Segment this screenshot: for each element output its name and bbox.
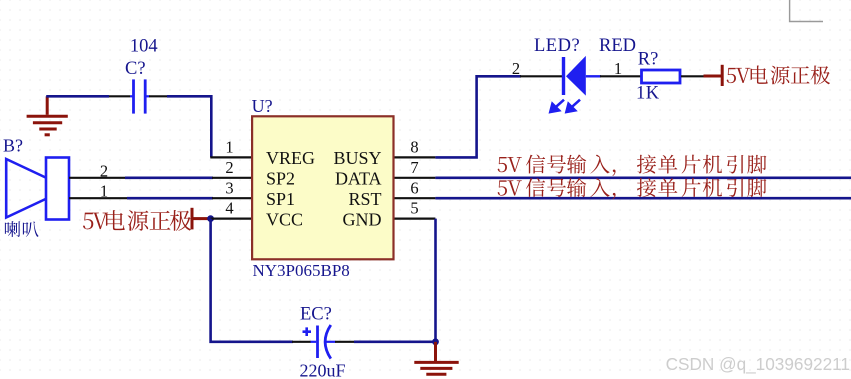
pin 1 lead (210, 156, 252, 158)
pin 6 lead (394, 197, 436, 199)
svg-text:U?: U? (252, 96, 273, 116)
svg-text:1: 1 (100, 181, 108, 200)
pin 8 lead (394, 156, 436, 158)
pin 3 lead (212, 197, 252, 199)
junction node VCC (207, 215, 214, 222)
svg-text:2: 2 (100, 162, 108, 181)
svg-text:B?: B? (3, 135, 23, 155)
electrolytic capacitor EC? plates (303, 325, 336, 359)
wire pin8 up to LED (435, 76, 521, 157)
wire EC1 to ground node (354, 340, 436, 343)
resistor R? body (642, 70, 681, 83)
sheet border corner (grey) (790, 0, 823, 22)
net label 5V电源正极 (right) (727, 66, 830, 85)
C1 right pin lead (black) (149, 95, 167, 97)
R1 right lead (black) (681, 75, 708, 77)
svg-text:1K: 1K (636, 84, 660, 104)
svg-text:1: 1 (225, 138, 233, 157)
net label 5V电源正极 (left) (83, 210, 191, 231)
wire speaker pin2 to SP2 (125, 177, 213, 180)
svg-text:CSDN @q_1039692211: CSDN @q_1039692211 (666, 354, 850, 374)
svg-text:4: 4 (225, 199, 233, 218)
ground GND2 (bottom) (414, 342, 458, 375)
svg-text:8: 8 (410, 138, 418, 157)
wire RST to edge (435, 197, 851, 200)
pin 2 lead (212, 177, 252, 179)
wire DATA to edge (435, 177, 851, 180)
ground GND1 (top-left) (27, 96, 68, 135)
svg-text:220uF: 220uF (300, 361, 346, 379)
svg-text:104: 104 (130, 37, 158, 57)
svg-text:DATA: DATA (335, 169, 382, 189)
speaker B? symbol (6, 158, 69, 220)
IC U? body (252, 116, 393, 259)
svg-text:VCC: VCC (266, 209, 303, 229)
pin 4 lead (211, 218, 253, 220)
C1 left pin lead (black) (109, 95, 130, 97)
svg-text:3: 3 (225, 178, 233, 197)
svg-text:SP2: SP2 (266, 169, 295, 189)
value label 喇叭 (speaker) (5, 221, 39, 237)
pin 7 lead (394, 177, 436, 179)
wire GND pin5 down (434, 219, 437, 342)
svg-text:R?: R? (638, 50, 659, 70)
power port bar (left 5V) (192, 208, 208, 230)
svg-text:2: 2 (225, 158, 233, 177)
junction node GND (432, 338, 439, 345)
svg-text:SP1: SP1 (266, 189, 295, 209)
svg-text:2: 2 (512, 59, 520, 78)
svg-text:EC?: EC? (300, 305, 332, 325)
annotation 5V信号输入，接单片机引脚 (RST) (498, 178, 767, 199)
EC1 right lead (black) (335, 341, 354, 343)
speaker pin 1 lead (69, 197, 127, 199)
wire VCC down to EC1 (211, 219, 293, 342)
capacitor C? plates (130, 79, 150, 113)
EC1 left lead (black) (292, 341, 311, 343)
svg-text:RST: RST (348, 189, 381, 209)
wire speaker pin1 to SP1 (127, 197, 213, 200)
svg-text:1: 1 (614, 59, 622, 78)
svg-text:VREG: VREG (266, 148, 315, 168)
svg-text:6: 6 (410, 178, 418, 197)
wire C1 to pin1 corner (167, 96, 211, 157)
svg-text:LED?: LED? (534, 36, 580, 56)
LED D? symbol (564, 56, 602, 96)
svg-text:7: 7 (410, 158, 418, 177)
LED light arrows (550, 100, 580, 112)
LED anode lead (black) (600, 75, 641, 77)
annotation 5V信号输入，接单片机引脚 (DATA) (498, 154, 767, 175)
svg-text:C?: C? (125, 59, 146, 79)
svg-text:5: 5 (410, 199, 418, 218)
speaker pin 2 lead (69, 177, 125, 179)
LED cathode lead (black) (520, 75, 562, 77)
svg-text:NY3P065BP8: NY3P065BP8 (253, 261, 350, 280)
pin 5 lead (394, 218, 436, 220)
svg-text:BUSY: BUSY (333, 148, 381, 168)
svg-text:RED: RED (599, 36, 636, 56)
power port bar (right 5V) (704, 65, 723, 86)
wire ground to C1 left lead (46, 95, 109, 98)
svg-text:GND: GND (343, 209, 382, 229)
